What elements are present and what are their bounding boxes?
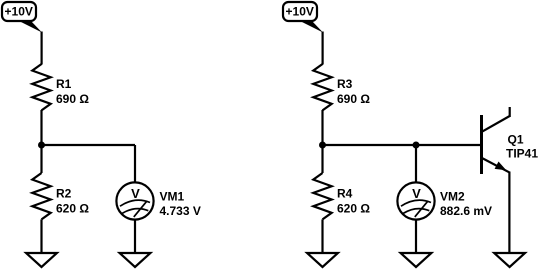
- svg-text:R2: R2: [56, 187, 72, 201]
- resistor R3: [313, 64, 370, 110]
- node junction: [38, 142, 45, 149]
- svg-text:+10V: +10V: [5, 5, 33, 19]
- voltmeter VM2: [397, 182, 492, 219]
- ground: [401, 253, 432, 267]
- ground: [494, 253, 525, 267]
- ground: [307, 253, 338, 267]
- svg-text:VM1: VM1: [160, 190, 185, 204]
- svg-text:620 Ω: 620 Ω: [56, 202, 89, 216]
- wire: [40, 110, 42, 145]
- transistor Q1: [481, 107, 538, 174]
- svg-text:V: V: [131, 186, 140, 201]
- ground: [26, 253, 57, 267]
- power source +10V (left): [2, 2, 42, 33]
- wire: [322, 32, 324, 65]
- node junction: [413, 142, 420, 149]
- svg-text:+10V: +10V: [286, 5, 314, 19]
- resistor R1: [32, 64, 89, 110]
- wire: [321, 145, 323, 173]
- wire: [42, 144, 136, 146]
- svg-text:VM2: VM2: [440, 190, 465, 204]
- wire: [415, 220, 417, 254]
- wire: [134, 145, 136, 183]
- wire: [321, 110, 323, 145]
- node junction: [319, 142, 326, 149]
- voltmeter VM1: [116, 182, 200, 219]
- ground: [120, 253, 151, 267]
- svg-text:4.733 V: 4.733 V: [160, 204, 201, 218]
- resistor R2: [32, 173, 89, 219]
- wire: [508, 172, 510, 254]
- svg-text:620 Ω: 620 Ω: [337, 202, 370, 216]
- wire: [40, 219, 42, 253]
- wire: [323, 144, 482, 146]
- svg-text:V: V: [412, 186, 421, 201]
- svg-text:690 Ω: 690 Ω: [337, 92, 370, 106]
- svg-text:Q1: Q1: [508, 133, 524, 147]
- svg-text:R3: R3: [337, 77, 353, 91]
- wire: [321, 219, 323, 253]
- wire: [40, 145, 42, 173]
- svg-text:690 Ω: 690 Ω: [56, 92, 89, 106]
- svg-text:R4: R4: [337, 187, 353, 201]
- svg-text:R1: R1: [56, 77, 72, 91]
- power source +10V (right): [283, 2, 323, 33]
- svg-text:882.6 mV: 882.6 mV: [440, 204, 492, 218]
- resistor R4: [313, 173, 370, 219]
- wire: [134, 220, 136, 254]
- wire: [40, 32, 42, 65]
- svg-text:TIP41: TIP41: [506, 147, 538, 161]
- wire: [415, 145, 417, 183]
